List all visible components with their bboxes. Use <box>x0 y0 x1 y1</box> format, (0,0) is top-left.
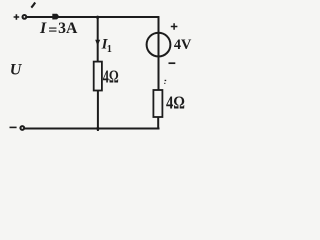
svg-text:1: 1 <box>107 44 112 55</box>
minus sign of source <box>169 62 176 64</box>
svg-text:4Ω: 4Ω <box>166 93 185 113</box>
svg-text:I: I <box>39 20 47 37</box>
speck noise near right resistor <box>165 80 167 81</box>
svg-text:U: U <box>10 62 23 79</box>
svg-text:=: = <box>48 22 57 39</box>
arrowhead current I on top wire <box>52 14 59 20</box>
junction dot bottom node <box>96 127 99 130</box>
wire top horizontal <box>27 16 160 18</box>
svg-text:4V: 4V <box>174 37 192 53</box>
resistor R1 4ohm middle <box>94 62 102 91</box>
node junction I1 branch <box>97 16 99 62</box>
minus sign left terminal <box>10 126 17 128</box>
voltage source U1 4V circle <box>147 33 171 57</box>
resistor R2 4ohm right <box>153 90 162 117</box>
plus sign of source <box>171 23 178 30</box>
wire right branch vertical upper <box>158 17 160 91</box>
junction dot top node <box>96 16 99 19</box>
tick mark (prime) top-left <box>31 3 35 8</box>
svg-text:4Ω: 4Ω <box>103 67 119 87</box>
wire right branch lower <box>157 117 159 129</box>
svg-text:3A: 3A <box>58 20 78 37</box>
terminal node bottom-left <box>20 126 24 130</box>
wire bottom horizontal <box>25 128 160 130</box>
wire middle branch lower <box>97 91 99 132</box>
plus sign left terminal <box>14 14 20 20</box>
arrowhead current I1 on middle branch <box>95 40 100 47</box>
terminal node top-left <box>23 15 27 19</box>
